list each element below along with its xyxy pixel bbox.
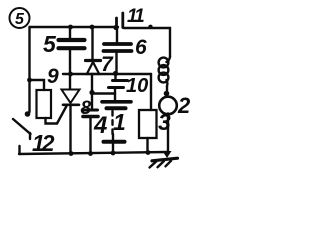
node top rail junction at connector 11	[113, 25, 118, 30]
resistor 3	[139, 109, 171, 153]
svg-text:12: 12	[32, 130, 55, 156]
node blob on top right wire	[148, 25, 152, 29]
svg-text:10: 10	[126, 75, 148, 97]
thyristor 8	[57, 74, 92, 153]
node bottom rail junction at capacitor 4	[88, 151, 93, 156]
svg-text:7: 7	[101, 53, 114, 76]
diode 7	[86, 27, 115, 92]
capacitor 10	[109, 74, 149, 100]
svg-text:5: 5	[15, 11, 25, 28]
switch 12	[13, 111, 55, 156]
wire bottom-left stub	[18, 146, 20, 154]
wire to resistor 3	[150, 74, 152, 110]
svg-text:2: 2	[177, 93, 191, 118]
capacitor 5	[43, 27, 85, 74]
wire bottom rail	[19, 152, 167, 154]
capacitor 4	[83, 93, 107, 154]
figure number circle 5	[10, 8, 30, 28]
wire battery branch	[92, 92, 115, 94]
svg-text:1: 1	[113, 109, 126, 135]
resistor 9	[29, 65, 59, 124]
node junction diode 7 / battery branch	[89, 90, 94, 95]
capacitor 6	[104, 27, 148, 73]
svg-text:9: 9	[47, 65, 59, 88]
earphone 2	[159, 86, 191, 152]
svg-text:11: 11	[127, 6, 144, 27]
node bottom rail junction at resistor 3	[146, 150, 151, 155]
node top rail junction at cap 5	[68, 25, 73, 30]
wire top right	[124, 28, 171, 57]
node bottom rail junction at battery 1	[111, 151, 116, 156]
svg-text:4: 4	[93, 112, 107, 139]
wire left vertical	[28, 27, 30, 112]
wire mid horizontal	[63, 73, 151, 75]
node bottom rail junction at thyristor 8	[69, 151, 74, 156]
node top rail junction at diode 7	[90, 25, 95, 30]
connector 11	[117, 6, 145, 28]
inductor coil	[159, 57, 170, 86]
svg-text:6: 6	[135, 36, 147, 59]
ground	[150, 151, 178, 168]
node left rail junction at resistor 9	[27, 78, 32, 83]
node mid wire junction at capacitor 10	[113, 71, 118, 76]
battery 1	[102, 102, 131, 153]
svg-text:5: 5	[43, 31, 57, 57]
node mid wire junction at SCR 8 anode	[68, 72, 73, 77]
wire top rail	[30, 26, 118, 28]
